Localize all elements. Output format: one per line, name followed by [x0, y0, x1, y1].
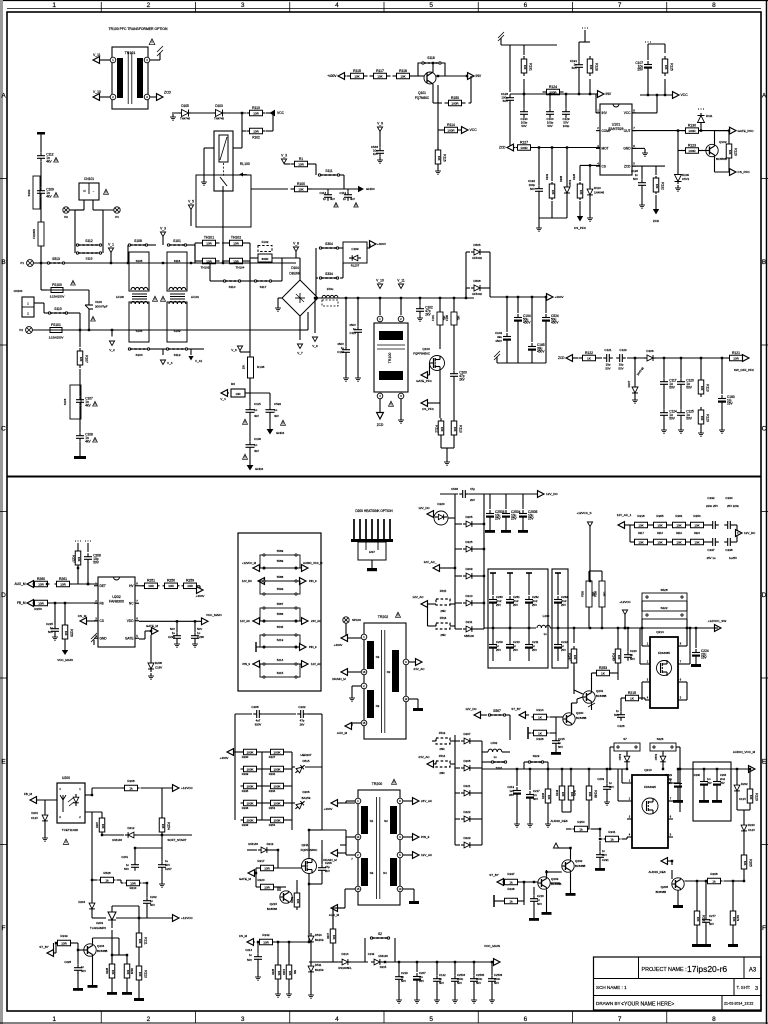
wire junction at 696,628: [695, 627, 697, 629]
svg-text:R211: R211: [144, 937, 148, 945]
svg-text:12V_AC: 12V_AC: [421, 853, 433, 857]
svg-text:R117: R117: [376, 69, 384, 73]
capacitor C185 bulk electrolytic: [531, 297, 533, 342]
port ST_BY bottom left: [47, 950, 54, 957]
jumper S110 mid: [223, 280, 241, 282]
capacitor C524 bulk electrolytic: [545, 297, 547, 313]
wire diode bank spine: [454, 494, 456, 518]
svg-text:R132: R132: [661, 182, 665, 190]
svg-text:5545: 5545: [277, 625, 284, 629]
svg-text:100K: 100K: [273, 818, 280, 822]
svg-text:50V: 50V: [476, 981, 481, 985]
wire junction at 510,628: [509, 627, 511, 629]
jumper S108: [128, 244, 148, 246]
svg-text:V_11: V_11: [93, 53, 101, 57]
port GND4 under C533: [269, 416, 271, 430]
svg-text:R207: R207: [95, 821, 99, 828]
transformer TR100: [374, 323, 408, 392]
transformer TR200: [358, 790, 400, 905]
svg-text:FB_M: FB_M: [17, 601, 26, 605]
port AUX_M: [27, 581, 34, 588]
fuse F100 vertical: [453, 298, 455, 312]
svg-text:25V: 25V: [511, 517, 518, 521]
svg-text:5: 5: [429, 2, 433, 9]
wire junction at 539,147.5: [538, 146, 540, 148]
warning triangle opto: [63, 839, 68, 844]
svg-text:50V: 50V: [521, 124, 526, 128]
svg-text:25V 220n: 25V 220n: [727, 504, 739, 508]
wire U101 VCC pin8: [632, 112, 657, 114]
svg-text:10K: 10K: [664, 65, 668, 70]
svg-text:C110: C110: [337, 350, 344, 354]
svg-text:10R: 10R: [206, 241, 212, 245]
svg-text:CS: CS: [602, 164, 606, 168]
svg-text:25V: 25V: [513, 603, 518, 607]
resistor R129 vertical: [728, 131, 730, 141]
capacitor C124: [663, 387, 665, 409]
connector CN100: [22, 297, 34, 317]
svg-text:21-02-2014_13:22: 21-02-2014_13:22: [724, 1002, 753, 1006]
zener D220 audio: [743, 810, 745, 822]
svg-text:C: C: [1, 425, 6, 432]
svg-text:TN4748: TN4748: [180, 117, 190, 121]
wire Q100 source: [439, 371, 441, 404]
fuse FS101: [46, 329, 66, 331]
wire junction at 744,881: [743, 880, 745, 882]
svg-text:D223: D223: [464, 836, 471, 840]
core lines LF100: [132, 293, 147, 295]
capacitor C208 snubber: [235, 713, 252, 715]
svg-text:4kV: 4kV: [254, 414, 259, 418]
svg-text:R245: R245: [573, 789, 577, 796]
svg-text:5583: 5583: [277, 549, 284, 553]
wire junction at 89,330: [88, 329, 90, 331]
svg-text:10K: 10K: [332, 935, 336, 940]
svg-text:10K: 10K: [579, 190, 583, 195]
svg-text:C295: C295: [168, 635, 175, 639]
svg-text:A: A: [762, 92, 767, 99]
svg-text:V_9: V_9: [312, 344, 318, 348]
svg-text:26R: 26R: [439, 771, 444, 775]
svg-text:S108: S108: [134, 239, 142, 243]
svg-text:BA159: BA159: [315, 938, 324, 942]
column tick top: [289, 2, 291, 12]
svg-text:S113: S113: [174, 353, 181, 357]
capacitor C213: [516, 769, 518, 786]
svg-text:Q102: Q102: [719, 140, 727, 144]
svg-text:1n: 1n: [254, 443, 258, 447]
wire coil left to ground: [204, 147, 214, 149]
wire junction at 358,298: [357, 297, 359, 299]
wire junction at 548,769: [547, 768, 549, 770]
capacitor C130: [523, 94, 525, 108]
svg-text:UF5402: UF5402: [472, 292, 482, 296]
port V_8: [293, 247, 298, 252]
svg-text:R114: R114: [447, 123, 455, 127]
svg-text:R257: R257: [72, 555, 76, 563]
svg-text:R236: R236: [242, 806, 249, 810]
column tick top: [572, 2, 574, 12]
svg-text:E: E: [762, 758, 767, 765]
svg-text:C214: C214: [245, 948, 252, 952]
wire R247 to Q201 base: [573, 666, 575, 694]
port V_9 lower: [314, 298, 316, 333]
wire junction at 610,769: [609, 768, 611, 770]
wire junction at 625,628: [624, 627, 626, 629]
svg-text:100K: 100K: [246, 801, 253, 805]
port V_9 upper: [377, 127, 382, 132]
svg-text:10K: 10K: [700, 386, 704, 391]
port ZCD below TR100: [379, 399, 381, 414]
svg-text:+12VCC_M: +12VCC_M: [242, 561, 257, 565]
svg-text:10K: 10K: [743, 861, 747, 866]
svg-text:R261: R261: [59, 577, 67, 581]
svg-text:24V_AC: 24V_AC: [311, 619, 321, 623]
ground below D208: [150, 673, 152, 676]
svg-text:C548: C548: [451, 487, 458, 491]
svg-text:L502: L502: [491, 741, 498, 745]
svg-text:R228: R228: [106, 967, 109, 974]
svg-text:10K: 10K: [694, 523, 699, 527]
row tick left: [0, 677, 7, 679]
svg-text:TH102: TH102: [231, 236, 241, 240]
svg-text:10R: 10R: [235, 392, 240, 396]
svg-text:10K: 10K: [400, 74, 405, 78]
wire junction at 672,861: [671, 860, 673, 862]
svg-text:10K: 10K: [354, 74, 359, 78]
svg-text:R243: R243: [60, 934, 68, 938]
ground at U202 GND pin: [93, 640, 95, 645]
wire TR101 pin4 stub: [150, 59, 160, 61]
wire coil drive: [233, 147, 242, 149]
wire junction at 147,883: [146, 882, 148, 884]
wire junction at 399,962: [398, 961, 400, 963]
wire Q211 source down: [308, 874, 310, 885]
port +400V at TR202: [341, 635, 348, 642]
capacitor C114: [327, 189, 329, 191]
wire junction at 466,298: [465, 297, 467, 299]
svg-text:50V: 50V: [150, 903, 155, 907]
svg-text:+400V: +400V: [324, 807, 333, 811]
svg-text:C12V: C12V: [31, 816, 38, 820]
wire junction at 289,942: [288, 941, 290, 943]
svg-text:R218: R218: [637, 514, 645, 518]
resistor R112 vertical: [439, 403, 441, 418]
svg-text:VCC: VCC: [470, 128, 478, 132]
wire relay contact to live bus: [222, 186, 224, 196]
port VCC_MAIN solid down: [64, 642, 66, 650]
svg-text:R221: R221: [290, 896, 294, 903]
port FB_M: [27, 600, 34, 607]
svg-text:10R: 10R: [298, 162, 304, 166]
diode D223: [455, 844, 460, 846]
svg-text:ZCD: ZCD: [164, 91, 172, 95]
ground Q204 emitter: [92, 956, 94, 985]
ground below D110: [589, 198, 591, 216]
jumper S100: [128, 348, 150, 350]
svg-text:26R: 26R: [440, 633, 445, 637]
port V_3: [160, 232, 165, 237]
svg-text:1m: 1m: [707, 777, 711, 781]
svg-text:N3: N3: [370, 871, 374, 875]
diode D506 boost: [466, 287, 470, 289]
transistor Q208: [672, 878, 684, 890]
svg-text:10R: 10R: [60, 582, 66, 586]
capacitor C209: [492, 628, 494, 641]
svg-text:BC8568: BC8568: [267, 907, 278, 911]
capacitor C216: [533, 887, 535, 895]
svg-text:12V_DC: 12V_DC: [546, 492, 558, 496]
resistor R261: [55, 583, 57, 585]
port CS_M bottom: [247, 939, 254, 946]
svg-text:Q203: Q203: [551, 877, 559, 881]
svg-text:8: 8: [712, 1016, 716, 1023]
svg-text:10R: 10R: [38, 582, 44, 586]
zener D109: [677, 151, 679, 173]
capacitor C109: [40, 162, 42, 187]
wire junction at 417,962: [416, 961, 418, 963]
svg-text:26R: 26R: [603, 591, 607, 596]
resistor R226 stby: [532, 732, 534, 734]
wire junction at 657,95: [656, 94, 658, 96]
svg-text:R118: R118: [399, 69, 407, 73]
svg-text:S101: S101: [173, 239, 181, 243]
svg-text:D106: D106: [646, 349, 654, 353]
svg-text:10R: 10R: [61, 941, 67, 945]
svg-text:50V: 50V: [439, 981, 444, 985]
main 12V bus wire: [614, 627, 718, 629]
diode D211: [455, 628, 462, 630]
resistor R116 vertical: [437, 147, 439, 150]
svg-text:R250: R250: [577, 820, 585, 824]
svg-text:RS1008FL: RS1008FL: [338, 966, 352, 970]
svg-text:V_3: V_3: [281, 154, 287, 158]
svg-text:V_11: V_11: [397, 279, 405, 283]
svg-text:PIN_9: PIN_9: [243, 662, 251, 666]
svg-text:P1: P1: [20, 261, 24, 265]
svg-text:V_9: V_9: [377, 122, 383, 126]
ground rail under bulk caps: [497, 362, 546, 364]
svg-text:R224: R224: [694, 533, 700, 535]
svg-text:R127: R127: [520, 141, 528, 145]
svg-text:V_1: V_1: [108, 243, 114, 247]
svg-text:C243: C243: [368, 952, 375, 956]
svg-text:R256: R256: [70, 629, 74, 637]
jumper S201: [491, 761, 507, 763]
resistor R220 audio vertical: [749, 769, 751, 786]
svg-text:SB5100: SB5100: [464, 634, 474, 638]
svg-text:12V_AC_1: 12V_AC_1: [617, 513, 632, 517]
port V_4: [162, 349, 164, 355]
port V_10 at TR100: [379, 298, 381, 315]
port 12V_AC lower: [421, 601, 428, 608]
port 12V_DC at D220: [427, 511, 434, 518]
wire junction at 484,549: [483, 548, 485, 550]
capacitor C125: [680, 387, 682, 409]
svg-text:R121: R121: [732, 351, 740, 355]
svg-text:R248: R248: [594, 790, 598, 798]
svg-text:D: D: [1, 592, 6, 599]
svg-text:S117: S117: [260, 285, 267, 289]
diode D106: [627, 357, 644, 359]
svg-text:C234: C234: [725, 496, 733, 500]
svg-text:3.15A/250V: 3.15A/250V: [49, 336, 64, 340]
ground below D201: [44, 824, 46, 836]
svg-text:CN101: CN101: [84, 177, 94, 181]
svg-text:SCH NAME : 1: SCH NAME : 1: [596, 985, 627, 990]
svg-text:25V: 25V: [496, 603, 501, 607]
resistor R250 hv: [163, 585, 165, 587]
wire junction at 717,769: [716, 768, 718, 770]
resistor R254: [269, 819, 271, 821]
transistor Q201 stby2: [583, 691, 595, 703]
wire junction at 706,881: [705, 880, 707, 882]
port 24V_AC left: [427, 761, 434, 768]
svg-text:B: B: [1, 259, 5, 266]
svg-text:10R: 10R: [263, 940, 269, 944]
diode D103: [213, 112, 225, 114]
capacitor C533: [269, 406, 271, 410]
wire junction at 517,769: [516, 768, 518, 770]
cap bank box 2: [552, 569, 568, 668]
svg-text:GND: GND: [623, 147, 631, 151]
resistor R6: [228, 392, 230, 394]
svg-text:1kV: 1kV: [373, 152, 378, 156]
jumper S115: [76, 252, 102, 254]
wire OUT pin7: [632, 130, 686, 132]
row tick right: [761, 511, 768, 513]
capacitor C262: [528, 573, 530, 595]
svg-text:16V: 16V: [701, 656, 708, 660]
svg-text:S513: S513: [52, 257, 60, 261]
zener D208: [150, 635, 152, 660]
wire junction at 316,298: [315, 297, 317, 299]
capacitor C131: [578, 42, 580, 61]
wire bridge top input: [299, 258, 301, 280]
port 12V_AC_ mid: [433, 565, 440, 572]
svg-text:TCET1102D: TCET1102D: [62, 828, 79, 832]
port GATE_M: [139, 638, 145, 640]
port +400V at U202: [199, 585, 201, 587]
svg-text:R259: R259: [186, 579, 194, 583]
diode D212: [102, 834, 124, 836]
jumper 5213 group row4: [260, 635, 300, 647]
svg-text:50V: 50V: [686, 416, 693, 420]
svg-text:12V_DC: 12V_DC: [744, 531, 756, 535]
resistor R118: [393, 75, 397, 77]
section divider wire: [7, 476, 761, 478]
svg-text:4kV: 4kV: [330, 197, 335, 201]
resistor R228 vertical: [111, 930, 113, 962]
resistor R233: [242, 768, 244, 770]
svg-text:5214: 5214: [277, 658, 284, 662]
wire junction at 380,298: [379, 297, 381, 299]
svg-text:R115: R115: [353, 69, 361, 73]
wire junction at 92,795: [91, 794, 93, 796]
zener D201: [44, 800, 46, 812]
resistor R211 vertical: [138, 918, 140, 930]
port +400V at TR200: [331, 800, 338, 807]
port +400V rail right: [547, 294, 554, 301]
IC U101 FAN7529: [600, 104, 632, 175]
svg-text:5593: 5593: [277, 587, 284, 591]
wire TH grid down to R108: [249, 261, 251, 357]
svg-text:4: 4: [335, 2, 339, 9]
svg-text:S2: S2: [378, 932, 382, 936]
port +12VCC_SW: [715, 625, 722, 632]
capacitor C203 sec: [606, 769, 608, 783]
svg-text:AUX_M: AUX_M: [337, 731, 348, 735]
transistor Q200 stby2: [563, 713, 575, 725]
port ZCD left of R127: [507, 144, 514, 151]
wire junction at 112,330: [111, 329, 113, 331]
svg-text:FB_M: FB_M: [24, 792, 33, 796]
port V_11: [93, 57, 100, 64]
svg-text:F513: F513: [439, 731, 446, 735]
svg-text:C18V: C18V: [155, 666, 162, 670]
svg-text:VCC: VCC: [277, 111, 285, 115]
svg-text:R150: R150: [451, 96, 459, 100]
resistor R227: [269, 751, 271, 753]
ground below C296: [194, 641, 196, 644]
resistor R253 sw: [593, 672, 597, 674]
svg-text:3: 3: [241, 2, 245, 9]
capacitor C117: [663, 358, 665, 378]
resistor R240 vertical: [617, 628, 619, 646]
resistor R208 audio: [685, 880, 708, 882]
resistor R215 sw: [622, 697, 626, 699]
svg-text:VCC_MAIN: VCC_MAIN: [206, 613, 222, 617]
svg-text:10R: 10R: [148, 584, 154, 588]
svg-text:1n: 1n: [323, 197, 327, 201]
svg-text:R239: R239: [242, 823, 249, 827]
svg-text:100R: 100R: [688, 129, 696, 133]
svg-text:HS7: HS7: [369, 550, 375, 554]
capacitor C231 audio: [599, 841, 601, 851]
svg-text:S567: S567: [493, 709, 501, 713]
ground below R116: [437, 167, 439, 171]
shunt regulator U203 TL431: [108, 912, 116, 920]
svg-text:C5V1: C5V1: [682, 177, 690, 181]
svg-text:R100: R100: [297, 182, 305, 186]
ground below C225: [54, 634, 56, 637]
svg-text:UF5402: UF5402: [472, 256, 482, 260]
ground below C295: [176, 641, 178, 644]
jumper option box outline: [238, 533, 321, 691]
svg-text:R279: R279: [736, 915, 740, 922]
svg-text:R261: R261: [675, 514, 683, 518]
svg-text:10K: 10K: [288, 971, 292, 976]
svg-text:100R: 100R: [447, 128, 455, 132]
svg-text:+400V: +400V: [555, 295, 565, 299]
capacitor C277: [705, 881, 707, 916]
wire junction at 552,147.5: [551, 146, 553, 148]
grounds under SW_OFF parts: [663, 418, 665, 428]
svg-text:R254: R254: [269, 823, 276, 827]
port 24V_AC at TR202: [409, 661, 416, 663]
svg-text:10K: 10K: [573, 655, 577, 660]
svg-text:D208: D208: [155, 661, 162, 665]
svg-text:450V: 450V: [551, 321, 559, 325]
wire junction at 315,298: [314, 297, 316, 299]
capacitor C107 electrolytic: [645, 42, 646, 43]
tick bar top of input column: [37, 132, 45, 135]
svg-text:CS_M: CS_M: [78, 614, 87, 618]
svg-text:C115: C115: [254, 402, 261, 406]
svg-text:R233: R233: [242, 772, 249, 776]
wire junction at 664,358: [663, 357, 665, 359]
svg-text:R128: R128: [595, 63, 599, 71]
